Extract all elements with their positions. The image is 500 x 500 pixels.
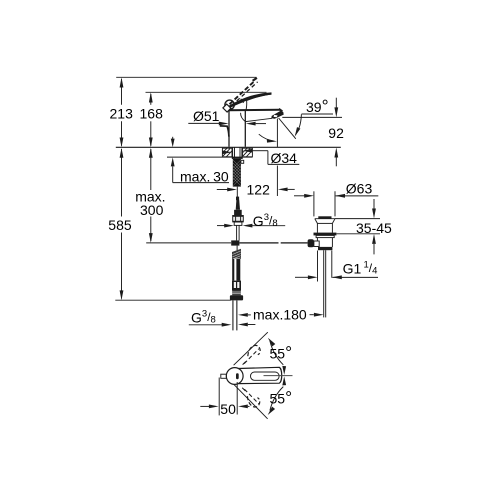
- hose end G3/8 thread tube: [232, 300, 234, 330]
- dimension G3/8 upper arrows: [217, 225, 225, 227]
- threaded rod knurl texture: [233, 160, 241, 186]
- svg-text:39°: 39°: [306, 96, 329, 116]
- lift rod knob: [236, 197, 239, 201]
- lift rod segment through clamp to hose: [236, 246, 238, 251]
- svg-text:122: 122: [247, 181, 271, 197]
- dimension 50 line and arrows: [200, 405, 209, 407]
- svg-text:Ø34: Ø34: [271, 150, 298, 166]
- svg-text:max.180: max.180: [253, 307, 307, 323]
- washer under counter: [232, 157, 243, 159]
- dashed raised lever lower edge: [232, 82, 258, 106]
- dimension Ø51 leader and arrows: [188, 122, 219, 124]
- lever surface tick: [241, 99, 244, 103]
- 39 degree spray diagonal line: [279, 118, 296, 139]
- mounting flange hatched left block: [222, 148, 232, 157]
- dimension 585 vertical line: [121, 149, 123, 217]
- reference line top of raised lever (213 datum): [116, 76, 256, 78]
- text labels group: [108, 96, 392, 417]
- lever back knob circle: [225, 100, 234, 109]
- drain pop-up waste plug black cap: [318, 216, 331, 218]
- hose lower crimp: [232, 281, 241, 291]
- dimension max30 line and arrows: [172, 137, 174, 140]
- supply hose collar: [234, 222, 242, 225]
- svg-text:Ø51: Ø51: [193, 108, 220, 124]
- dimension G3/8 lower leader and arrows: [189, 324, 223, 326]
- top view handle body: [239, 367, 282, 383]
- drain tailpipe: [323, 250, 325, 317]
- dimension Ø63 arrows and extension lines: [313, 191, 315, 216]
- curved mark under Ø51 arrow: [220, 126, 229, 137]
- drain flange top line: [315, 218, 335, 220]
- faucet body column left edge: [228, 110, 230, 147]
- counter underside line: [167, 156, 252, 158]
- dashed raised lever upper edge: [230, 80, 256, 104]
- svg-text:213: 213: [110, 105, 134, 121]
- drain flange taper sides: [315, 219, 318, 224]
- dashed rotated handle lower: [247, 396, 259, 407]
- spout top edge: [229, 109, 280, 112]
- dimension 168 vertical line: [150, 94, 152, 105]
- hose upper crimp hatched: [232, 249, 241, 259]
- supply hose tube: [236, 225, 238, 240]
- top view swing extension line upper: [234, 332, 268, 365]
- arrowheads dim 213: [120, 77, 124, 87]
- handle centerline (0 deg reference): [264, 375, 293, 377]
- spout outlet vertical reference line: [276, 119, 278, 148]
- supply pipe black taper: [236, 200, 240, 210]
- cartridge cap right edge: [245, 101, 248, 110]
- hose braid left edge: [232, 259, 234, 281]
- countertop line: [116, 146, 341, 148]
- svg-text:Ø63: Ø63: [346, 180, 373, 196]
- dimension max300 vertical line: [150, 149, 152, 190]
- spout tip corner stroke: [279, 109, 283, 112]
- dimension max180 arrows: [238, 313, 248, 317]
- arrowheads dim 585: [120, 148, 124, 158]
- svg-text:max. 30: max. 30: [180, 168, 229, 184]
- dimension 35-45 arrows: [373, 199, 375, 209]
- svg-text:300: 300: [140, 202, 164, 218]
- hose braid right edge: [236, 259, 240, 281]
- threaded rod knurled: [233, 159, 241, 187]
- top view handle slot: [251, 372, 280, 380]
- dashed line along upper diagonal: [244, 349, 259, 364]
- 92 reference line (spout outlet level): [282, 116, 342, 118]
- dimension G1 1/4 arrows and extension lines: [317, 251, 319, 282]
- arrowheads dim 168: [149, 92, 153, 102]
- reference line 585 bottom: [115, 299, 231, 301]
- horizontal drain actuating rod right segment: [281, 242, 308, 244]
- mounting flange hatched right block: [243, 148, 253, 157]
- supply hose nut: [233, 216, 244, 222]
- dimension Ø34 leader and arrows: [222, 151, 231, 155]
- drain body lower sides: [316, 238, 318, 247]
- svg-text:168: 168: [140, 105, 164, 121]
- dimension 122 arrows: [217, 189, 228, 191]
- dimension 92 line and arrows: [335, 98, 337, 108]
- threaded shank through counter: [232, 148, 234, 159]
- drain body upper sides: [316, 223, 318, 232]
- svg-text:50: 50: [220, 401, 236, 417]
- lever back diamond facet: [223, 104, 231, 112]
- drain rod clamp square: [314, 241, 319, 247]
- reference line top of lever (168 datum): [146, 91, 267, 93]
- svg-text:92: 92: [328, 125, 344, 141]
- dashed raised lever tip dash: [253, 78, 257, 81]
- svg-text:585: 585: [108, 217, 132, 233]
- lever handle solid (side view): [227, 92, 271, 109]
- supply hose upper fitting block: [234, 210, 242, 216]
- 39 degree arc with arrow: [296, 114, 302, 134]
- drain seal black band: [314, 233, 337, 236]
- svg-text:35-45: 35-45: [356, 220, 392, 236]
- 55 degree arc lower: [270, 387, 283, 411]
- spout underside line: [246, 118, 273, 121]
- drain washer below seal: [316, 235, 334, 237]
- spout outlet arc with arrow: [259, 134, 274, 141]
- arrowheads dim max300: [149, 148, 153, 158]
- faucet body column right edge: [244, 110, 246, 146]
- dimension 50 extension lines: [218, 378, 220, 416]
- lift rod to drain rod clamp: [231, 240, 239, 245]
- 39 degree text shelf line: [302, 113, 334, 115]
- dimension 213 vertical line: [121, 79, 123, 105]
- lever underside line: [247, 94, 272, 101]
- hose end thread bands: [232, 290, 241, 295]
- 55 degree arc upper: [270, 341, 283, 365]
- dimension 35-45 reference lines: [335, 218, 380, 220]
- drain coupling black band: [318, 247, 332, 250]
- reference line max300 bottom: [146, 242, 231, 244]
- drain lift rod thin: [236, 187, 238, 198]
- horizontal drain actuating rod left segment: [239, 242, 278, 244]
- dashed line along lower diagonal: [244, 389, 259, 404]
- svg-text:55°: 55°: [270, 388, 293, 408]
- drain rod clamp knob: [308, 239, 314, 247]
- spout tip black outlet band: [271, 110, 283, 118]
- top view pivot bar: [236, 373, 239, 379]
- top view handle knob circle: [226, 368, 243, 385]
- hose end nut: [230, 295, 243, 300]
- dashed rotated handle upper: [248, 345, 260, 356]
- drain flange underside line: [317, 222, 332, 224]
- top view swing extension line lower: [234, 385, 268, 419]
- svg-text:55°: 55°: [270, 343, 293, 363]
- top view left stub: [221, 374, 227, 378]
- spout heel curve: [241, 113, 246, 122]
